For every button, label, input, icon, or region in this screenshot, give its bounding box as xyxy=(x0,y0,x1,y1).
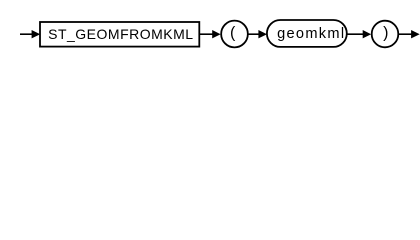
svg-text:ST_GEOMFROMKML: ST_GEOMFROMKML xyxy=(48,26,193,42)
arrowhead A1 xyxy=(32,30,41,38)
arrowhead A5 xyxy=(411,30,420,38)
function box ST_GEOMFROMKML xyxy=(40,22,199,47)
svg-text:(: ( xyxy=(230,25,236,42)
terminal circle P1 open-paren xyxy=(221,21,248,48)
svg-text:): ) xyxy=(383,25,388,42)
wire W1 (entry line) xyxy=(20,33,34,35)
wire W2 xyxy=(199,33,215,35)
arrowhead A2 xyxy=(212,30,220,38)
wire W4 xyxy=(347,33,365,35)
parameter oval geomkml xyxy=(267,20,347,47)
terminal circle P2 close-paren xyxy=(372,21,399,48)
arrowhead A4 xyxy=(363,30,371,38)
wire W5 (exit line) xyxy=(398,33,413,35)
arrowhead A3 xyxy=(258,30,267,38)
svg-text:geomkml: geomkml xyxy=(277,26,344,42)
wire W3 xyxy=(248,33,261,35)
